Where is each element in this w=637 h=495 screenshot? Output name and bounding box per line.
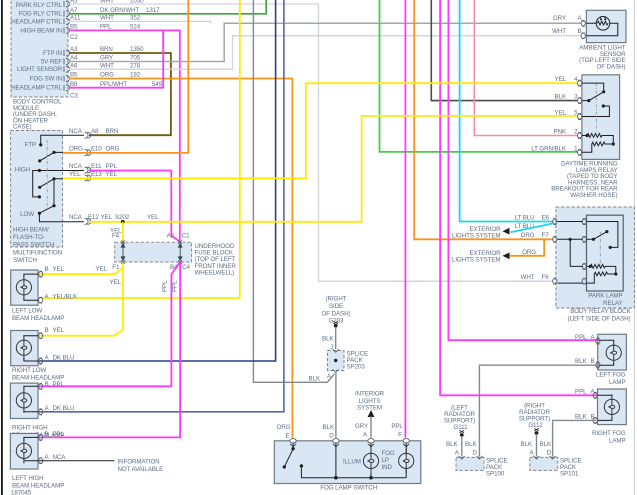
SP101 pin glyphs [534, 456, 556, 459]
wire A8 black stub [63, 134, 84, 136]
svg-text:BLK: BLK [465, 441, 477, 448]
svg-text:BLK: BLK [521, 441, 533, 448]
BCM pin row labels [70, 0, 163, 100]
svg-text:PPL: PPL [575, 388, 587, 395]
body relay block pin glyphs [553, 219, 587, 285]
svg-text:NOT AVAILABLE: NOT AVAILABLE [118, 466, 164, 473]
fog switch contact dots [283, 447, 373, 479]
svg-text:5V REF: 5V REF [41, 59, 62, 66]
svg-text:YEL: YEL [53, 327, 65, 334]
wire PPL fuse block B4 down to right high beam B [39, 262, 180, 386]
svg-text:RIGHT LOW: RIGHT LOW [12, 367, 46, 374]
svg-text:DK BLU: DK BLU [53, 405, 75, 412]
wire right fog B BLK to SP101 D [553, 420, 596, 456]
DRL relay coil [582, 134, 613, 153]
BCM left pin labels [11, 2, 62, 92]
wire A7 DK GRN/WHT 1317 fog rly ctrl up off page [69, 0, 266, 14]
sensor caption [579, 45, 626, 71]
wire PPL vertical from top to fog lamp switch F [404, 0, 406, 438]
svg-text:F6: F6 [542, 274, 550, 281]
svg-text:705: 705 [130, 55, 141, 62]
switch mechanical dashed link [46, 140, 48, 208]
left high beam pin glyphs [39, 434, 43, 463]
svg-text:ILLUM: ILLUM [343, 458, 361, 465]
svg-text:PPL: PPL [53, 431, 65, 438]
wire ORG vertical from top to body relay block F7 [414, 0, 552, 239]
wire B5 PPL 524 high beam in [69, 30, 180, 241]
wire E11 PPL to fuse block A2 [89, 171, 180, 242]
wire A11 WHT 352 headlamp ctrl stub [69, 21, 211, 23]
wire A3 BRN 1350 ftp in to switch A8 [69, 53, 171, 135]
daytime running lamps relay box [582, 75, 620, 160]
svg-text:LOW: LOW [20, 211, 34, 218]
svg-text:LEFT LOW: LEFT LOW [12, 307, 42, 314]
svg-text:A11: A11 [70, 15, 81, 22]
ground G203 [333, 321, 338, 323]
svg-text:MULTIFUNCTION: MULTIFUNCTION [13, 250, 62, 257]
svg-text:S202: S202 [115, 214, 130, 221]
svg-text:HEADLAMP CTRL: HEADLAMP CTRL [11, 19, 62, 26]
svg-text:LP: LP [382, 457, 389, 464]
svg-text:1350: 1350 [130, 46, 144, 53]
svg-text:GRY: GRY [100, 55, 113, 62]
DRL relay pin labels [531, 76, 578, 152]
svg-text:A6: A6 [70, 62, 78, 69]
wire BLK vertical from top to DRL relay pin 3 [431, 0, 578, 101]
wire DK BLU vertical from top to right low beam A [39, 0, 276, 361]
svg-text:LAMP: LAMP [609, 379, 626, 386]
svg-text:G111: G111 [454, 424, 469, 431]
svg-text:E: E [285, 433, 289, 440]
svg-text:BLK: BLK [540, 441, 552, 448]
svg-text:F7: F7 [542, 232, 550, 239]
svg-text:(RIGHT: (RIGHT [326, 295, 347, 302]
body relay block dashed box [556, 207, 635, 308]
svg-text:BODY RELAY BLOCK: BODY RELAY BLOCK [570, 308, 631, 315]
wire G203 to SP203 J [335, 327, 337, 349]
svg-text:OF DASH): OF DASH) [322, 310, 351, 317]
park lamp relay internal wiring [558, 222, 618, 284]
svg-text:FTP: FTP [25, 142, 36, 149]
svg-text:LEFT FOG: LEFT FOG [596, 371, 626, 378]
svg-text:RELAY: RELAY [603, 300, 622, 307]
splice pack SP101 box [530, 457, 558, 470]
fog lamp switch box [274, 441, 421, 484]
left low beam pin glyphs [39, 271, 43, 303]
right radiator support note [519, 402, 551, 429]
svg-text:YEL: YEL [53, 266, 65, 273]
sensor pin glyphs [581, 20, 585, 38]
right low beam headlamp box [11, 331, 38, 366]
svg-text:YEL: YEL [69, 171, 81, 178]
svg-text:LEFT HIGH: LEFT HIGH [12, 475, 43, 482]
svg-text:BLK: BLK [322, 335, 334, 342]
wire DK BLU vertical from top to right high beam A [39, 0, 284, 412]
svg-text:PPL: PPL [172, 280, 179, 292]
interior lights system arrow [368, 410, 375, 417]
left low beam lamp symbol [24, 274, 38, 300]
svg-text:GRY: GRY [553, 15, 566, 22]
DRL dashed link [595, 84, 597, 134]
svg-text:NCA: NCA [69, 128, 83, 135]
SP100 pin glyphs [459, 456, 483, 459]
svg-text:A4: A4 [70, 55, 78, 62]
ambient light sensor box [586, 10, 626, 42]
switch internal contacts and blades [33, 135, 63, 222]
svg-text:FOG LAMP SWITCH: FOG LAMP SWITCH [320, 485, 377, 492]
svg-text:278: 278 [130, 62, 141, 69]
underhood fuse block box [115, 242, 192, 262]
svg-text:B: B [45, 381, 49, 388]
svg-text:GRY: GRY [355, 423, 368, 430]
svg-text:FOG: FOG [382, 450, 395, 457]
svg-text:SWITCH: SWITCH [13, 257, 37, 264]
svg-text:BEAM HEADLAMP: BEAM HEADLAMP [12, 482, 64, 489]
svg-text:F4: F4 [112, 232, 120, 239]
svg-text:YEL: YEL [96, 266, 108, 273]
right low beam pin glyphs [39, 333, 43, 364]
svg-text:IND: IND [382, 464, 393, 471]
splice pack SP203 box [328, 351, 345, 371]
svg-text:INFORMATION: INFORMATION [118, 458, 160, 465]
svg-text:D: D [472, 449, 477, 456]
svg-text:PNK: PNK [554, 129, 567, 136]
right fog pin glyphs [593, 392, 597, 423]
svg-text:D: D [547, 449, 552, 456]
wire B8 PPL/WHT 549 headlamp ctrl joins B5 PPL [69, 31, 163, 88]
svg-text:YEL: YEL [555, 110, 567, 117]
svg-text:E10: E10 [91, 145, 102, 152]
wire YEL fuse block F1 branch to right low beam B [39, 266, 123, 336]
svg-text:PPL: PPL [106, 163, 118, 170]
wire LT BLU diagonal from E6 to arrow [511, 224, 553, 233]
page left border [1, 0, 3, 495]
svg-text:WASHER HOSE): WASHER HOSE) [570, 192, 617, 199]
wire PPL vertical from top to right fog lamp A [440, 0, 598, 395]
wire B5 ORG 192 fog sw in [69, 79, 292, 438]
fog switch internal switch [284, 443, 406, 478]
right fog lamp symbol [598, 395, 612, 420]
switch contact dots [38, 143, 56, 215]
DRL relay pin glyphs [577, 80, 581, 155]
svg-text:FTP IN: FTP IN [43, 50, 62, 57]
right low beam lamp symbol [24, 336, 38, 361]
svg-text:PPL: PPL [575, 334, 587, 341]
svg-text:E13: E13 [91, 171, 102, 178]
right fog lamp box [598, 389, 627, 425]
exterior lights system arrow 2 [503, 252, 510, 259]
svg-text:YEL: YEL [110, 279, 122, 286]
svg-text:BLK: BLK [446, 441, 458, 448]
svg-text:PPL: PPL [391, 423, 403, 430]
svg-text:C1: C1 [182, 232, 190, 239]
svg-text:ORG: ORG [522, 249, 536, 256]
svg-text:B: B [45, 266, 49, 273]
left high beam headlamp box [10, 434, 38, 470]
splice S202 junction dot [121, 220, 125, 224]
wire SP203 A down to fog lamp switch D [335, 372, 337, 438]
svg-text:LIGHTS SYSTEM: LIGHTS SYSTEM [452, 233, 500, 240]
svg-text:J: J [330, 344, 333, 351]
svg-text:BLK: BLK [575, 413, 587, 420]
fog lamp switch top pin glyphs [290, 439, 410, 447]
wire E12 black stub [63, 221, 84, 223]
wire G111 to SP100 A [461, 436, 463, 457]
svg-text:(LEFT SIDE OF DASH): (LEFT SIDE OF DASH) [568, 315, 631, 322]
svg-text:BRN: BRN [100, 46, 113, 53]
DRL relay caption [551, 161, 618, 200]
svg-text:WHT: WHT [100, 62, 114, 69]
left fog pin glyphs [596, 338, 600, 368]
svg-text:BLK: BLK [555, 94, 567, 101]
svg-text:WHT: WHT [552, 28, 566, 35]
park lamp relay dots [569, 230, 618, 276]
svg-text:FOG RLY CTRL: FOG RLY CTRL [18, 11, 62, 18]
wire YEL fuse block F1 to left low beam B [39, 263, 123, 275]
svg-text:E11: E11 [91, 163, 102, 170]
SP203 pin glyphs [333, 349, 339, 372]
svg-text:B: B [45, 327, 49, 334]
wire E12 YEL to DRL relay pin 5 [89, 116, 578, 222]
svg-text:187045: 187045 [11, 490, 32, 495]
svg-text:SYSTEM: SYSTEM [357, 404, 382, 411]
multifunction switch caption [13, 227, 62, 265]
svg-text:E12: E12 [88, 214, 99, 221]
right side of dash G203 note [322, 295, 351, 324]
svg-text:ORG: ORG [106, 145, 120, 152]
switch pin labels [69, 128, 159, 221]
wire LT GRN/BLK vertical from top to DRL relay pin 1 [380, 0, 578, 152]
svg-text:C4: C4 [182, 264, 190, 271]
svg-text:RIGHT HIGH: RIGHT HIGH [12, 424, 48, 431]
svg-text:ORG: ORG [69, 145, 83, 152]
left radiator support note [444, 404, 476, 431]
wire E10 ORG to orange vertical from top [63, 0, 189, 153]
wire E13 YEL to DRL relay pin 4 [63, 83, 578, 178]
svg-text:A2: A2 [167, 232, 175, 239]
wire GRY fog switch A up to arrow [370, 417, 372, 438]
park lamp relay dashed link [599, 232, 601, 266]
wire PPL fuse block C4 down to left high beam B [39, 262, 180, 437]
svg-text:PPL: PPL [162, 280, 169, 292]
svg-text:B: B [45, 431, 49, 438]
svg-text:NCA: NCA [53, 454, 67, 461]
left fog lamp symbol [599, 340, 614, 365]
svg-text:YEL: YEL [101, 214, 113, 221]
svg-text:F1: F1 [112, 264, 120, 271]
svg-text:WHT: WHT [521, 274, 535, 281]
svg-text:HIGH: HIGH [15, 167, 30, 174]
svg-text:PARK LAMP: PARK LAMP [588, 292, 622, 299]
svg-text:PPL: PPL [53, 381, 65, 388]
svg-text:BRN: BRN [106, 128, 119, 135]
svg-text:BLK: BLK [309, 375, 321, 382]
DRL internal contact dots [587, 90, 605, 107]
svg-text:A8: A8 [91, 128, 99, 135]
svg-text:FOG SW IN: FOG SW IN [30, 76, 62, 83]
svg-text:A7: A7 [70, 7, 78, 14]
interior lights system note [355, 390, 385, 411]
fuse block internal arrow F4-F1 [121, 244, 182, 260]
svg-text:G112: G112 [528, 422, 543, 429]
left high beam lamp symbol [24, 437, 38, 461]
wire left high beam A NCA black [39, 460, 115, 462]
svg-text:ORG: ORG [521, 232, 535, 239]
svg-text:PASS SWITCH: PASS SWITCH [13, 242, 54, 249]
wire G112 to SP101 A [536, 434, 538, 457]
park lamp relay box [587, 215, 624, 291]
wire YEL S202 down to fuse block F4 [122, 222, 124, 242]
fuse block caption [195, 243, 237, 277]
wire A5 WHT 1050 park rly ctrl to park lamp relay F6 [69, 4, 553, 281]
wire ORG from arrow 2 up to F7 [510, 240, 545, 256]
body control module box [11, 0, 68, 97]
wire left fog B BLK to SP100 D [479, 365, 598, 456]
left low beam headlamp box [11, 270, 38, 305]
svg-text:WHT: WHT [100, 15, 114, 22]
illumination lamp [370, 443, 372, 478]
svg-text:RIGHT FOG: RIGHT FOG [592, 430, 626, 437]
svg-text:1317: 1317 [146, 7, 160, 14]
svg-text:HIGH BEAM IN: HIGH BEAM IN [20, 28, 62, 35]
wire PNK vertical from top to DRL relay pin 2 [474, 0, 578, 136]
body control module caption [13, 99, 62, 131]
ambient light sensor photocell symbol [586, 17, 617, 36]
svg-text:CASE): CASE) [13, 124, 32, 131]
svg-text:HIGH BEAM/: HIGH BEAM/ [13, 227, 49, 234]
wire E11 black stub [63, 170, 84, 172]
svg-text:B: B [591, 358, 595, 365]
svg-text:NCA: NCA [69, 214, 83, 221]
svg-text:LT BLU: LT BLU [515, 214, 535, 221]
ground G112 [534, 428, 539, 430]
svg-text:LT GRN/BLK: LT GRN/BLK [531, 145, 567, 152]
ground G111 [460, 430, 465, 432]
svg-text:LIGHT SENSOR: LIGHT SENSOR [17, 66, 63, 73]
svg-text:DK GRN/WHT: DK GRN/WHT [100, 7, 139, 14]
svg-text:A3: A3 [70, 46, 78, 53]
svg-text:FLASH-TO-: FLASH-TO- [13, 234, 45, 241]
svg-text:YEL/BLK: YEL/BLK [53, 294, 79, 301]
svg-text:WHEELWELL): WHEELWELL) [195, 270, 235, 277]
BCM pin connector glyphs [64, 1, 70, 91]
left fog lamp box [598, 334, 627, 370]
fuse block pin glyphs [121, 240, 182, 263]
SP203 inner dot [334, 359, 337, 362]
svg-text:F: F [398, 431, 402, 438]
splice pack SP100 box [456, 457, 484, 470]
right high beam lamp symbol [24, 386, 38, 412]
svg-text:HEADLAMP CTRL: HEADLAMP CTRL [11, 85, 62, 92]
svg-text:SP101: SP101 [560, 470, 579, 477]
svg-text:LAMP: LAMP [609, 438, 626, 445]
svg-text:YEL: YEL [106, 171, 118, 178]
page right border [634, 0, 635, 495]
fog lamp indicator lamp [405, 443, 407, 478]
svg-text:YEL: YEL [555, 76, 567, 83]
switch pin connector glyphs [85, 132, 91, 224]
svg-text:C3: C3 [70, 93, 78, 100]
wire YEL vertical from top to left low beam A (YEL/BLK) [41, 0, 240, 298]
DRL relay internal switch [582, 83, 609, 116]
svg-text:PARK RLY CTRL: PARK RLY CTRL [16, 2, 63, 9]
svg-text:BEAM HEADLAMP: BEAM HEADLAMP [12, 315, 64, 322]
svg-text:BLK: BLK [323, 424, 335, 431]
svg-text:YEL: YEL [147, 214, 159, 221]
wire BLK ground vertical from top to splice pack SP203 [253, 0, 334, 382]
wire A4 GRY 705 5v ref to sensor A [69, 23, 581, 61]
svg-text:NCA: NCA [69, 163, 83, 170]
exterior lights system arrow 1 [503, 228, 510, 235]
svg-text:C2: C2 [70, 34, 78, 41]
right high beam pin glyphs [39, 383, 43, 415]
svg-text:ORG: ORG [277, 424, 291, 431]
svg-text:SP203: SP203 [347, 364, 366, 371]
svg-text:SP100: SP100 [486, 470, 505, 477]
wire LT BLU vertical from top to body relay block E6 [460, 0, 553, 222]
DRL coil dots [585, 134, 615, 146]
svg-text:352: 352 [130, 15, 141, 22]
wire A6 WHT 278 light sensor to sensor B [69, 36, 581, 69]
svg-text:OF DASH): OF DASH) [597, 63, 626, 70]
svg-text:BLK: BLK [575, 358, 587, 365]
svg-text:E6: E6 [542, 214, 550, 221]
svg-text:SIDE: SIDE [329, 303, 343, 310]
wire PPL vertical from top to left fog lamp A [448, 0, 598, 340]
svg-text:B: B [591, 413, 595, 420]
svg-text:INTERIOR: INTERIOR [355, 390, 385, 397]
right high beam headlamp box [10, 383, 38, 418]
svg-text:DK BLU: DK BLU [53, 355, 75, 362]
svg-text:LIGHTS SYSTEM: LIGHTS SYSTEM [452, 257, 500, 264]
multifunction switch box [11, 131, 63, 248]
